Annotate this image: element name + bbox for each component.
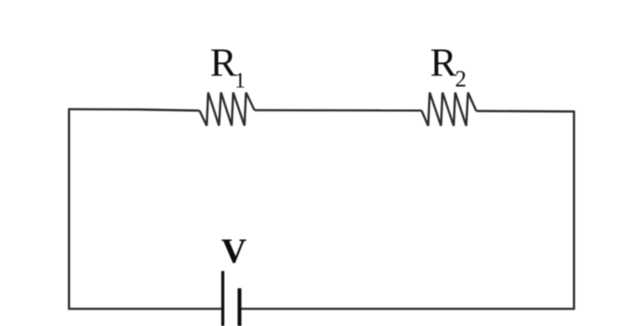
svg-text:V: V [221, 232, 246, 271]
svg-text:2: 2 [455, 67, 467, 92]
svg-text:1: 1 [235, 67, 246, 92]
svg-text:R: R [430, 40, 457, 85]
svg-text:R: R [210, 40, 237, 85]
